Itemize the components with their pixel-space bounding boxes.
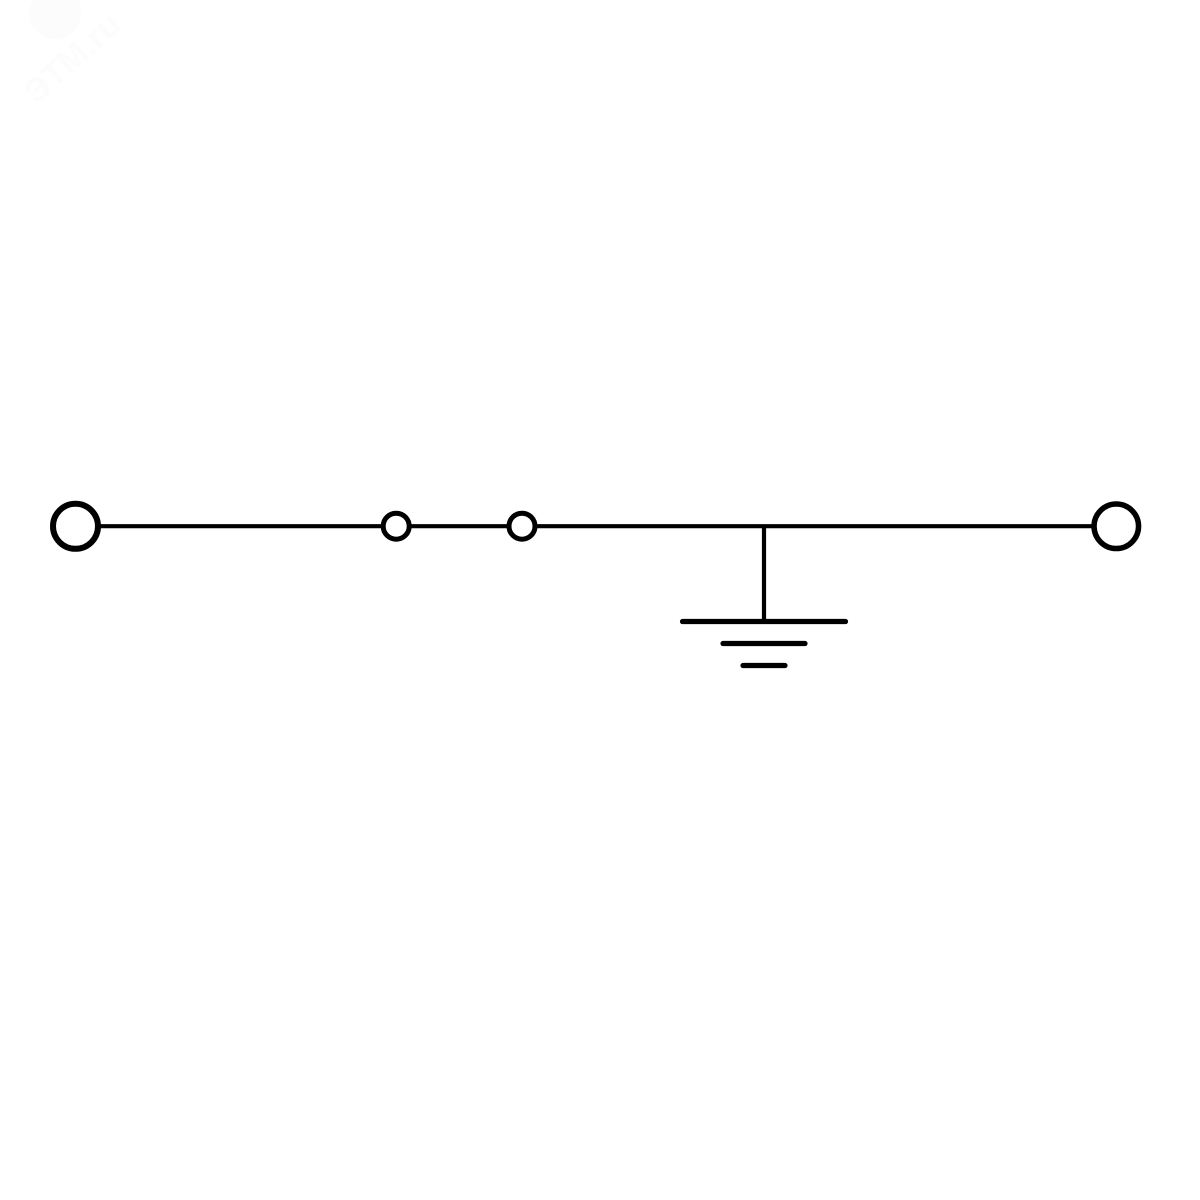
watermark (faint rotated logo, top-left) (0, 0, 128, 111)
node A (small circle, left) (383, 513, 409, 539)
wire: vertical drop to ground (762, 526, 766, 621)
terminal L1 (left clamp circle) (53, 504, 98, 549)
node B (small circle, right) (509, 513, 535, 539)
terminal L2 (right clamp circle) (1094, 504, 1139, 549)
wire: main horizontal bus (75, 524, 1116, 528)
ground (683, 622, 846, 666)
